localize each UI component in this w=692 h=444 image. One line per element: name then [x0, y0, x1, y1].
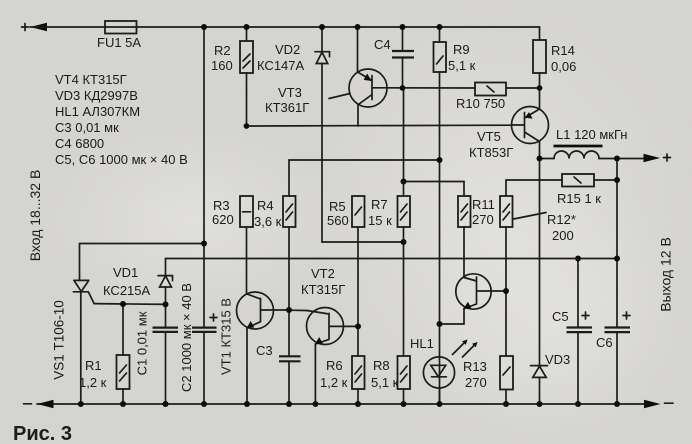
pointer line R12 label	[514, 213, 547, 220]
resistor R13	[500, 356, 513, 390]
wire VT3 base to y88 wire	[372, 87, 475, 89]
wire output node down right bus to C6	[616, 159, 618, 328]
svg-text:R5: R5	[329, 199, 346, 214]
svg-text:560: 560	[327, 213, 349, 228]
svg-text:C4: C4	[374, 37, 391, 52]
wire R9 top lead	[439, 27, 441, 42]
svg-text:VD3 КД2997В: VD3 КД2997В	[55, 88, 138, 103]
wire VT5 collector node down to VD3	[539, 159, 541, 366]
wire R5 bottom to VT2 collector node and R6	[357, 227, 359, 356]
svg-text:VT5: VT5	[477, 129, 501, 144]
wire C2 top lead from input node	[203, 244, 205, 328]
wire R2 top lead	[246, 27, 248, 41]
wire output arrow	[644, 154, 661, 163]
svg-text:160: 160	[211, 58, 233, 73]
node dots gate wire	[120, 301, 169, 307]
transistor VT2	[307, 308, 359, 345]
wire VD2 top lead	[321, 27, 323, 52]
svg-text:Рис. 3: Рис. 3	[13, 423, 72, 444]
pointer line VT3 label	[329, 94, 350, 99]
wire C4 top lead	[402, 27, 404, 51]
node + (output plus sign)	[664, 154, 671, 161]
capacitor C4	[392, 51, 414, 58]
svg-text:R3: R3	[213, 198, 230, 213]
svg-text:VT4 КТ315Г: VT4 КТ315Г	[55, 72, 127, 87]
wire top rail corner down to R14	[539, 27, 541, 40]
svg-text:Выход 12 В: Выход 12 В	[658, 237, 674, 312]
svg-text:Вход 18...32 В: Вход 18...32 В	[27, 170, 43, 262]
capacitor C3	[279, 356, 301, 361]
wire R1 bottom lead	[122, 389, 124, 404]
svg-text:С2 1000 мк × 40 В: С2 1000 мк × 40 В	[179, 283, 194, 392]
wire VD3 anode to bottom rail	[539, 377, 541, 404]
svg-text:С4 6800: С4 6800	[55, 136, 104, 151]
node - (minus dash bottom right)	[665, 402, 674, 404]
transistor VT1	[237, 292, 289, 329]
led HL1	[423, 357, 454, 388]
node dot R4 wire at R9 line	[437, 157, 443, 163]
svg-text:R11: R11	[472, 197, 495, 212]
wire C1 top lead	[165, 304, 167, 327]
svg-text:1,2 к: 1,2 к	[79, 375, 107, 390]
transistor VT3	[349, 69, 387, 107]
wire VD1 anode to gate node	[165, 287, 167, 304]
wire R2 bottom to node at y126	[246, 73, 248, 126]
wire VT4 emitter to HL1 node	[440, 309, 465, 324]
wire VT5 collector down to output node	[539, 142, 541, 159]
wire HL1 bottom lead	[439, 388, 441, 404]
svg-text:270: 270	[465, 375, 487, 390]
thyristor VS1	[73, 280, 94, 303]
svg-text:C6: C6	[596, 335, 613, 350]
resistor R12	[500, 196, 513, 227]
svg-text:FU1 5A: FU1 5A	[97, 35, 141, 50]
wire VT1 emitter to bottom rail	[246, 328, 248, 404]
resistor R15	[562, 174, 594, 187]
wire C3 bottom lead	[288, 361, 290, 404]
svg-text:HL1 АЛ307КМ: HL1 АЛ307КМ	[55, 104, 140, 119]
svg-text:С3 0,01 мк: С3 0,01 мк	[55, 120, 119, 135]
svg-text:5,1 к: 5,1 к	[448, 58, 476, 73]
capacitor C6	[605, 328, 631, 333]
svg-text:КТ315Г: КТ315Г	[301, 282, 345, 297]
wire VT5 emitter lead	[539, 88, 541, 109]
wire C5 top lead from sense wire	[577, 259, 579, 328]
svg-text:620: 620	[212, 212, 234, 227]
svg-text:VS1 Т106-10: VS1 Т106-10	[52, 300, 67, 380]
resistor R9	[434, 42, 447, 72]
svg-text:КС215А: КС215А	[103, 283, 151, 298]
wire VT3 emitter lead from rail	[357, 27, 359, 72]
node + (C2 polarity)	[210, 314, 217, 321]
wire bottom negative rail	[37, 403, 646, 405]
resistor R8	[398, 356, 411, 389]
wire bottom rail left arrow	[37, 400, 54, 409]
svg-text:КТ361Г: КТ361Г	[265, 100, 309, 115]
wire C6 bottom lead	[616, 332, 618, 404]
node dots bottom rail	[78, 401, 620, 407]
svg-text:R4: R4	[257, 198, 274, 213]
wire R7 top node wire y181 to R11	[404, 182, 465, 197]
svg-text:C5: C5	[552, 309, 569, 324]
wire R6 bottom lead	[357, 389, 359, 404]
svg-text:200: 200	[552, 228, 574, 243]
wire R9 bottom long vertical to HL1	[439, 72, 441, 404]
wire R7 vertical from y88 node	[403, 88, 405, 196]
wire VT2 emitter to bottom rail	[314, 344, 316, 404]
wire bottom rail right arrow	[644, 400, 661, 409]
svg-text:R7: R7	[371, 197, 388, 212]
svg-text:C3: C3	[256, 343, 273, 358]
wire top positive rail	[30, 26, 540, 28]
node dot VT4 collector junction	[503, 288, 509, 294]
wire output sense wire y258 (VD1 to C5/C6)	[166, 258, 618, 260]
svg-text:R6: R6	[326, 358, 343, 373]
node dot R7 top	[401, 179, 407, 185]
wire VT3 collector down to y126	[357, 105, 359, 126]
node dots output sense wire	[575, 256, 620, 262]
svg-text:0,06: 0,06	[551, 59, 576, 74]
node dot VD2-R7	[401, 239, 407, 245]
fuse FU1	[105, 21, 137, 34]
wire R4 top wire y160	[289, 160, 440, 196]
svg-text:VT2: VT2	[311, 266, 335, 281]
svg-text:R9: R9	[453, 42, 470, 57]
wire C2 bottom lead	[203, 332, 205, 404]
transistor VT5	[512, 107, 549, 144]
wire VS1 gate wire y304	[94, 303, 166, 306]
svg-text:С1 0,01 мк: С1 0,01 мк	[134, 311, 149, 375]
svg-text:R8: R8	[373, 358, 390, 373]
wire R11 bottom to VT4 base	[463, 227, 465, 278]
svg-text:VD3: VD3	[545, 352, 570, 367]
wire R13 bottom lead	[505, 390, 507, 405]
wire VT1 collector node to C3	[288, 227, 290, 356]
node dot VT4 emitter junction	[437, 321, 443, 327]
node dot input bus corner	[201, 241, 207, 247]
svg-text:R2: R2	[214, 43, 231, 58]
svg-text:R1: R1	[85, 358, 102, 373]
wire R7 bottom through R8	[403, 227, 405, 356]
resistor R2	[240, 41, 253, 73]
svg-text:R10 750: R10 750	[456, 96, 505, 111]
resistor R10	[475, 83, 506, 96]
wire R14 bottom lead	[539, 73, 541, 88]
svg-text:5,1 к: 5,1 к	[371, 375, 399, 390]
wire R3 bottom to VT1 base	[246, 227, 248, 294]
svg-text:R14: R14	[551, 43, 575, 58]
resistor R11	[458, 196, 471, 227]
zener VD1	[158, 276, 173, 287]
diode VD3	[531, 366, 548, 378]
svg-text:L1 120 мкГн: L1 120 мкГн	[556, 127, 628, 142]
svg-text:VT3: VT3	[278, 85, 302, 100]
capacitor C5	[567, 328, 593, 333]
wire C5 bottom lead	[577, 332, 579, 404]
wire C1 bottom lead	[165, 332, 167, 404]
transistor VT4	[456, 274, 506, 309]
inductor L1	[554, 151, 599, 158]
svg-text:КТ853Г: КТ853Г	[469, 145, 513, 160]
svg-text:С5, С6 1000 мк × 40 В: С5, С6 1000 мк × 40 В	[55, 152, 188, 167]
resistor R4	[283, 196, 296, 227]
resistor R14	[533, 40, 546, 73]
node dots top rail	[201, 24, 443, 30]
wire R8 bottom lead	[403, 389, 405, 404]
wire HL1 arrows (light emission)	[453, 343, 475, 358]
capacitor C1	[153, 328, 179, 332]
node + (C6 polarity)	[623, 312, 630, 319]
svg-text:VD1: VD1	[113, 265, 138, 280]
wire VT2 base wire	[289, 309, 307, 311]
wire R15 right lead	[594, 179, 617, 181]
wire VT5 base wire y126 from R2/R3 node	[247, 124, 512, 127]
capacitor C2	[192, 328, 217, 332]
node dot VT1 collector junction	[286, 307, 292, 313]
svg-text:R12*: R12*	[547, 212, 576, 227]
wire VD2 node to R7 node (y242)	[322, 241, 404, 243]
node - (minus dash bottom left)	[24, 403, 32, 405]
resistor R7	[398, 196, 411, 227]
node dot VT2 collector junction	[355, 323, 361, 329]
node dots output wire	[537, 156, 621, 184]
wire VD1 cathode up to output sense wire	[165, 259, 167, 276]
wire R15 left lead from R12 node	[506, 179, 562, 181]
wire R12 bottom to VT4 collector node to R13	[505, 227, 507, 356]
wire R10 right to R14 node	[506, 87, 540, 89]
node dots y88 wire	[400, 85, 543, 91]
wire VS1 cathode to bottom rail	[80, 292, 82, 404]
wire input node to VS1 anode	[80, 244, 205, 281]
wire C4 bottom lead to y88	[402, 58, 404, 89]
svg-text:VD2: VD2	[275, 42, 300, 57]
wire VD2 anode down to y242	[321, 64, 323, 243]
wire R1 top lead	[122, 304, 124, 355]
node + (C5 polarity)	[582, 312, 589, 319]
svg-text:R13: R13	[463, 359, 487, 374]
svg-text:HL1: HL1	[410, 336, 434, 351]
wire top rail arrow	[30, 23, 47, 32]
inductor L1 core bar	[554, 145, 603, 148]
svg-text:15 к: 15 к	[368, 213, 392, 228]
svg-text:КС147А: КС147А	[257, 58, 305, 73]
svg-text:270: 270	[472, 212, 494, 227]
svg-text:1,2 к: 1,2 к	[320, 375, 348, 390]
node dots y126 wire	[244, 123, 250, 129]
wire output line through L1	[540, 158, 646, 160]
wire R12 top lead to R15 wire	[505, 180, 507, 196]
svg-text:VT1 КТ315 В: VT1 КТ315 В	[218, 298, 233, 375]
wire input bus x204 from rail	[203, 27, 205, 244]
node + (input plus sign top-left)	[22, 24, 29, 31]
resistor R1	[117, 355, 130, 389]
resistor R6	[352, 356, 365, 389]
svg-text:3,6 к: 3,6 к	[254, 214, 282, 229]
resistor R5	[352, 196, 365, 227]
zener VD2	[315, 52, 330, 64]
resistor R3	[240, 196, 253, 227]
svg-text:R15 1 к: R15 1 к	[557, 191, 601, 206]
